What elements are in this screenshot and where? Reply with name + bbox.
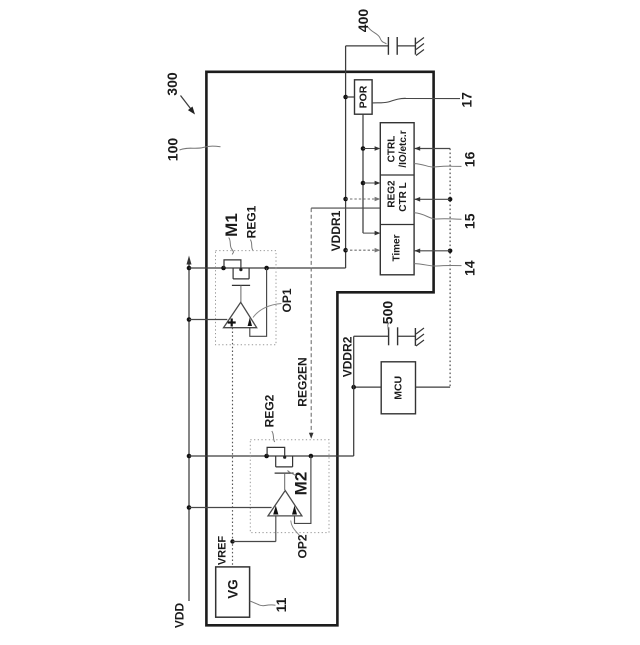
svg-text:REG2EN: REG2EN	[295, 357, 309, 406]
REG2 dashed enclosure	[250, 440, 329, 533]
svg-text:M1: M1	[222, 213, 241, 237]
wire POR to Timer cell	[363, 231, 380, 236]
wire VDDR1 vertical	[343, 46, 348, 268]
label REG2 with leader	[263, 394, 277, 442]
svg-text:Timer: Timer	[392, 234, 403, 261]
wire VDD to VDDR2 through M2	[189, 454, 354, 459]
svg-text:OP1: OP1	[280, 288, 294, 312]
op-amp OP2	[268, 491, 302, 516]
wire MCU to bus	[416, 386, 451, 388]
node VDD-M1	[187, 266, 192, 271]
wire VREF to OP2	[233, 541, 276, 543]
label M1 with leader	[222, 213, 241, 254]
wire VDD to OP1 + input	[189, 319, 227, 321]
wire pin16 into CTRL cell	[414, 146, 450, 151]
wire to capacitor 500	[354, 335, 415, 337]
label 500 with leader	[380, 301, 396, 330]
svg-text:500: 500	[380, 301, 396, 325]
node VDD-OP2	[187, 505, 192, 510]
label REG1 with leader	[245, 205, 259, 250]
wire OP2 input lead down	[275, 516, 277, 542]
cell REG2 CTRL text	[387, 180, 410, 212]
bus MCU to pins (dotted)	[448, 149, 453, 388]
svg-text:CTR L: CTR L	[398, 182, 409, 211]
label OP1 with leader	[253, 288, 294, 317]
wire REG2EN vertical with arrow	[309, 208, 314, 439]
label 400 with leader	[355, 9, 387, 44]
svg-text:14: 14	[461, 260, 477, 276]
wire to capacitor 400	[346, 45, 415, 47]
svg-text:VDDR1: VDDR1	[329, 210, 343, 251]
svg-text:REG2: REG2	[263, 394, 277, 427]
wire VDD to OP2 input	[189, 507, 272, 509]
svg-text:POR: POR	[357, 85, 369, 108]
wire VDDR1 to POR	[346, 96, 355, 98]
wire pin14 into Timer cell	[414, 249, 450, 254]
svg-text:17: 17	[458, 92, 474, 108]
pin 14 leader	[414, 264, 461, 266]
pin 15 leader	[414, 213, 461, 220]
cell CTRL/IO text	[387, 130, 410, 167]
node VDD-OP1	[187, 317, 192, 322]
svg-text:VDD: VDD	[172, 603, 186, 629]
transistor M1	[224, 260, 250, 302]
wire pin15 into REG2CTRL cell	[414, 197, 450, 202]
label M2 with leader	[288, 471, 311, 496]
svg-text:REG1: REG1	[245, 205, 259, 238]
POR box U-POR	[355, 80, 373, 114]
OP1 feedback wire	[250, 268, 267, 336]
label OP2 with leader	[291, 521, 310, 559]
chip outline 300 (L-shaped SoC boundary)	[206, 72, 433, 626]
svg-text:VG: VG	[225, 579, 240, 599]
svg-text:MCU: MCU	[392, 376, 404, 400]
svg-text:15: 15	[461, 213, 477, 229]
wire REG2EN horizontal	[311, 207, 380, 209]
svg-text:11: 11	[273, 597, 289, 612]
wire POR to CTRL cell	[363, 146, 380, 151]
pin 16 leader	[414, 164, 461, 167]
svg-text:VREF: VREF	[217, 536, 229, 566]
node VDD-M2	[187, 454, 192, 459]
wire VDD to VDDR1 through M1	[189, 266, 346, 271]
OP2 feedback wire	[295, 456, 311, 523]
label 11 with leader	[250, 597, 289, 612]
svg-text:100: 100	[165, 138, 181, 162]
svg-text:VDDR2: VDDR2	[340, 336, 354, 377]
dashed wire VDDR1 to REG2CTRL cell	[346, 197, 381, 202]
svg-text:16: 16	[461, 151, 477, 167]
svg-text:400: 400	[355, 9, 371, 33]
wire VREF dotted (OP1 input to VG)	[230, 328, 234, 567]
svg-text:OP2: OP2	[295, 534, 309, 558]
wire VDDR2 vertical	[353, 336, 355, 456]
capacitor C500 plates	[389, 327, 398, 345]
label 300 with arrow	[164, 72, 195, 114]
VDD rail	[187, 256, 192, 602]
REG1 dashed enclosure	[216, 251, 277, 345]
transistor M2	[267, 447, 294, 490]
wire POR to REG2CTRL cell	[363, 181, 380, 186]
svg-text:300: 300	[164, 72, 180, 96]
capacitor C400 plates	[388, 37, 397, 55]
svg-text:REG2: REG2	[387, 180, 398, 208]
dashed wire VDDR1 to Timer cell	[346, 248, 381, 253]
wire VDDR2 to MCU	[351, 385, 381, 390]
ground (bottom)	[415, 328, 424, 346]
label 100 with leader	[165, 138, 221, 162]
svg-text:CTRL: CTRL	[387, 136, 398, 163]
digital block box (Timer / REG2 CTRL / CTRL IO)	[380, 123, 414, 275]
svg-text:/IO/etc.r: /IO/etc.r	[398, 130, 409, 167]
wire POR output down	[361, 114, 366, 233]
VG box (voltage generator 11)	[216, 567, 250, 617]
MCU box	[381, 362, 415, 414]
op-amp OP1	[224, 302, 257, 327]
pin 17 leader	[372, 98, 460, 103]
ground (top)	[415, 38, 424, 56]
